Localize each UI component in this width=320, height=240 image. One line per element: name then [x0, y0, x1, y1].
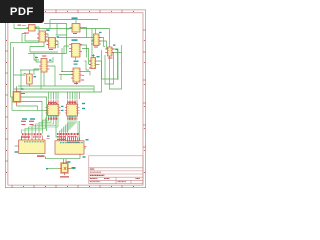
svg-text:PDF: PDF	[10, 6, 34, 18]
